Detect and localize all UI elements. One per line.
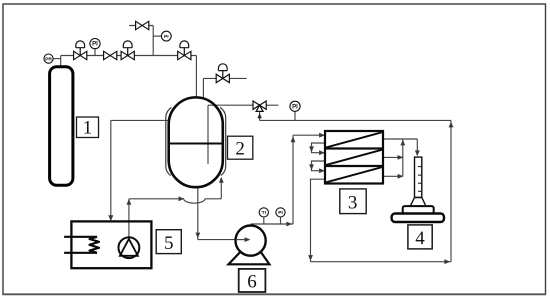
control valve V1 with diaphragm actuator [74, 41, 87, 60]
svg-text:PR: PR [45, 56, 52, 62]
wire: pump 6 discharge with TI/PI taps to exchanger feed riser [251, 135, 325, 224]
arrow down at bottom loop left corner [308, 255, 313, 261]
gas cylinder 1 [50, 67, 73, 185]
arrow down into column 4 [415, 150, 420, 156]
wire: exchanger outlet manifold to measuring column 4 [383, 139, 417, 176]
arrow up at manifold top [400, 140, 405, 146]
svg-text:6: 6 [247, 272, 257, 293]
label box 5 [156, 230, 181, 254]
hand valve V2 [104, 51, 117, 59]
pump symbol inside tank 5 [118, 237, 139, 258]
measuring column 4 tube [415, 157, 422, 197]
heater element zigzag [90, 237, 100, 253]
heater tank 5 shell [71, 221, 151, 268]
vessel 2 liquid level line [170, 143, 222, 145]
arrow down above pump 6 suction corner [195, 233, 200, 239]
pump 6 pedestal [229, 251, 270, 264]
arrow at manifold middle junction [398, 155, 404, 160]
svg-text:3: 3 [348, 193, 358, 214]
arrow down on return bend 2 [309, 164, 314, 170]
flow arrow into three-way valve [257, 113, 261, 118]
arrow at manifold bottom junction [398, 174, 404, 179]
wire: pump 5 discharge to vessel jacket (with crossover dip) [129, 178, 221, 238]
pump 6 casing [236, 226, 266, 256]
arrow up into vessel jacket [219, 177, 224, 183]
column 4 cone base [410, 198, 426, 207]
svg-text:2: 2 [235, 139, 245, 160]
wire: upper vent branch with shut-off valve [129, 26, 161, 56]
control valve V3 with diaphragm actuator [121, 41, 134, 60]
arrow up on exchanger feed riser [291, 136, 296, 142]
arrow into exchanger pass 1 [319, 133, 325, 138]
arrow into exchanger pass 3 [319, 168, 325, 173]
label box 2 [228, 136, 253, 159]
arrow right at end of pump 6 discharge [286, 222, 292, 227]
svg-text:5: 5 [164, 233, 174, 254]
heat exchanger 3 pass 2 coil diagonal [326, 150, 382, 165]
temperature indicator TI at pump 6 [259, 208, 268, 217]
three-way valve V7 [253, 101, 266, 111]
wire: vessel left port down to heater tank 5 [111, 120, 170, 219]
column 4 graduation ticks [418, 167, 422, 192]
pressure indicator PI at pump 6 [276, 208, 285, 217]
svg-text:PI: PI [292, 104, 298, 110]
arrow into tank 5 [108, 215, 113, 221]
arrow up at right riser top [449, 122, 454, 128]
wire: main supply header from cylinder riser to vessel downcomer [53, 49, 196, 67]
heat exchanger 3 pass 1 coil diagonal [326, 132, 382, 147]
pressure indicator PI on vent riser [161, 31, 171, 41]
hand valve V4 on vent branch [136, 21, 149, 29]
arrow into exchanger pass 2 [319, 150, 325, 155]
pump 6 suction line inside casing [236, 237, 250, 242]
arrow into pump 6 center [245, 237, 251, 242]
arrow right at bottom loop right corner [444, 259, 450, 264]
label box 4 [408, 225, 432, 249]
svg-text:1: 1 [83, 118, 93, 139]
wire: downcomer into vessel dome [195, 56, 197, 99]
label box 3 [340, 189, 366, 214]
wire: vessel bottom outlet to pump 6 suction [198, 187, 249, 240]
heat exchanger 3 shell [325, 131, 383, 184]
svg-text:PI: PI [278, 210, 283, 216]
svg-text:PI: PI [164, 34, 169, 40]
svg-text:TI: TI [262, 210, 267, 216]
control valve V6 on vessel vent with diaphragm actuator [216, 64, 229, 83]
wire: vessel vent branch to relief valve [203, 78, 246, 98]
arrow right before crossover dip [179, 196, 185, 201]
vessel 2 jacket left wall [166, 107, 172, 175]
wire: dip-tube line to three-way valve [208, 105, 278, 164]
heat exchanger 3 pass 3 coil diagonal [326, 167, 382, 182]
label box 6 [239, 269, 266, 293]
wire: exchanger pass 3 outlet down and around bottom return loop [311, 120, 452, 261]
pressure indicator PI on recirculation header [290, 101, 300, 111]
arrow down on return bend 1 [309, 146, 314, 152]
wire: three-way valve bottom port to recirculation header [260, 109, 451, 120]
svg-text:PI: PI [92, 42, 98, 48]
heater element leads [64, 237, 97, 253]
pressure indicator PI on header [90, 39, 100, 49]
pressure regulator PR [44, 54, 53, 63]
wire: exchanger pass 2 to pass 3 return bend [312, 161, 326, 171]
jacketed vessel 2 [169, 97, 223, 187]
column 4 stand top [403, 206, 434, 213]
arrow up at pump 5 riser top [127, 199, 132, 205]
vessel 2 jacket right wall [220, 107, 226, 175]
wire: exchanger pass 1 to pass 2 return bend [312, 143, 326, 153]
column 4 base plate [392, 214, 444, 223]
svg-text:4: 4 [415, 228, 425, 249]
control valve V5 with diaphragm actuator [178, 41, 191, 60]
label box 1 [77, 117, 99, 139]
